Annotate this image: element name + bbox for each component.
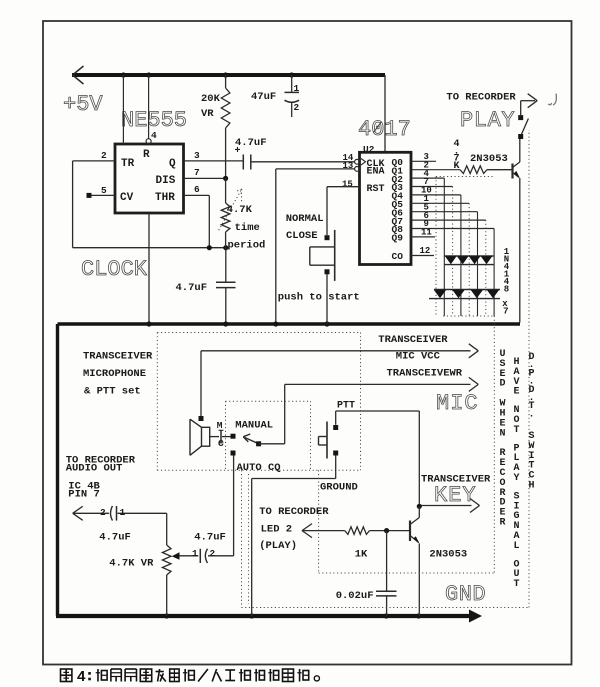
svg-text:AUDIO OUT: AUDIO OUT (66, 462, 123, 474)
svg-text:MIC VCC: MIC VCC (396, 351, 441, 363)
svg-text:LED 2: LED 2 (261, 523, 293, 535)
svg-text:TO RECORDER: TO RECORDER (446, 92, 516, 104)
svg-text:MANUAL: MANUAL (235, 419, 273, 431)
svg-text:4.7K VR: 4.7K VR (109, 558, 154, 570)
svg-text:5: 5 (101, 185, 107, 196)
svg-text:CLOSE: CLOSE (286, 230, 318, 242)
svg-text:1: 1 (192, 548, 198, 559)
svg-text:3: 3 (194, 150, 200, 161)
svg-text:CV: CV (120, 192, 134, 204)
svg-text:12: 12 (420, 246, 431, 256)
svg-text:TRANSCEIVER: TRANSCEIVER (378, 334, 448, 346)
svg-text:2: 2 (101, 150, 107, 161)
svg-text:H: H (528, 481, 534, 492)
svg-text:VR: VR (201, 108, 214, 120)
svg-text:Q9: Q9 (392, 233, 404, 244)
svg-text:TR: TR (121, 158, 135, 170)
svg-text:DIS: DIS (156, 175, 176, 187)
svg-text:Y: Y (513, 473, 519, 484)
svg-text:20K: 20K (201, 93, 221, 105)
svg-text:AUTO CQ: AUTO CQ (237, 462, 281, 474)
svg-text:period: period (228, 240, 266, 252)
svg-text:4: 4 (77, 669, 86, 686)
svg-text:CO: CO (392, 251, 404, 262)
svg-text:2: 2 (294, 102, 300, 113)
svg-text:8: 8 (504, 285, 509, 295)
svg-text:2: 2 (100, 507, 106, 518)
svg-text:& PTT set: & PTT set (84, 386, 141, 398)
svg-text:TRANSCEIVER: TRANSCEIVER (83, 351, 153, 363)
svg-text:PLAY: PLAY (460, 108, 515, 133)
svg-text:7: 7 (503, 307, 508, 317)
svg-text:6: 6 (194, 184, 200, 195)
svg-text:C: C (218, 438, 224, 449)
svg-text:15: 15 (342, 180, 353, 190)
svg-text:+: + (235, 146, 241, 157)
svg-text:MIC: MIC (436, 391, 479, 416)
svg-text:CLOCK: CLOCK (81, 257, 148, 282)
svg-text:GND: GND (445, 582, 486, 607)
svg-text:NORMAL: NORMAL (286, 213, 324, 225)
svg-text:MICROPHONE: MICROPHONE (83, 368, 146, 380)
svg-text:0.02uF: 0.02uF (336, 590, 374, 602)
svg-text:L: L (513, 541, 519, 552)
svg-text:.: . (528, 409, 534, 420)
svg-text:T: T (513, 579, 519, 590)
svg-text:ENA: ENA (367, 167, 385, 178)
svg-text:7: 7 (194, 167, 200, 178)
svg-text:D: D (499, 379, 505, 390)
svg-text:47uF: 47uF (251, 91, 276, 103)
svg-text:THR: THR (155, 192, 175, 204)
svg-text:(PLAY): (PLAY) (259, 540, 297, 552)
svg-text:+5V: +5V (63, 92, 103, 117)
svg-text:4.7K: 4.7K (227, 204, 253, 216)
svg-text:1: 1 (294, 83, 300, 94)
svg-text:4: 4 (151, 130, 157, 141)
svg-text:T: T (513, 425, 519, 436)
svg-text:N: N (499, 428, 505, 439)
svg-text:Q: Q (169, 158, 176, 170)
svg-text:time: time (235, 222, 260, 234)
svg-text:4.7uF: 4.7uF (99, 531, 131, 543)
svg-text:M: M (217, 420, 223, 431)
svg-text:4017: 4017 (358, 117, 411, 142)
svg-text:2N3053: 2N3053 (470, 153, 508, 165)
svg-text:R: R (499, 518, 505, 529)
svg-text:2: 2 (210, 548, 216, 559)
svg-text:K: K (453, 161, 459, 172)
svg-text:1K: 1K (355, 549, 368, 561)
svg-text:RST: RST (367, 184, 385, 195)
svg-text:1: 1 (120, 507, 126, 518)
svg-text:4.7uF: 4.7uF (176, 282, 208, 294)
svg-text:KEY: KEY (434, 483, 477, 508)
svg-text:GROUND: GROUND (320, 482, 358, 494)
svg-text:E: E (513, 387, 519, 398)
svg-text:R: R (143, 149, 150, 161)
svg-text:push to start: push to start (278, 291, 360, 303)
svg-text:PIN 7: PIN 7 (68, 489, 100, 501)
svg-text:2N3053: 2N3053 (429, 548, 467, 560)
svg-text:PTT: PTT (337, 401, 355, 412)
svg-text:4.7uF: 4.7uF (194, 531, 226, 543)
svg-text:TRANSCEIVEWR: TRANSCEIVEWR (387, 367, 463, 379)
svg-text:11: 11 (421, 228, 432, 238)
